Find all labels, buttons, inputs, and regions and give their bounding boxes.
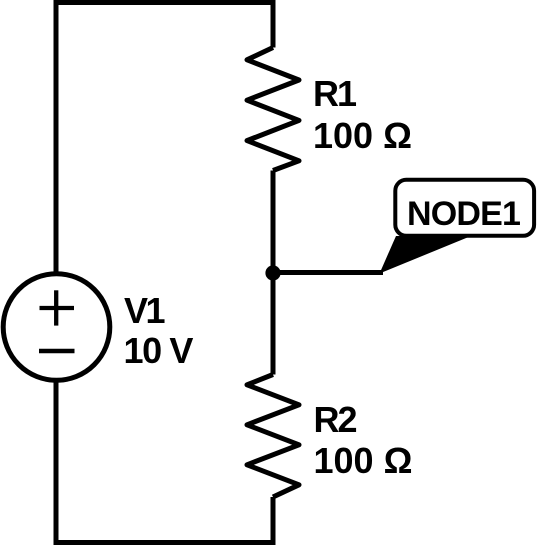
plus sign (V1): [40, 290, 75, 325]
callout tail: [380, 236, 472, 274]
wire top: [54, 0, 276, 5]
svg-text:NODE1: NODE1: [407, 195, 520, 233]
wire node to callout: [273, 270, 383, 275]
svg-text:V1: V1: [124, 290, 166, 331]
resistor R2: [247, 375, 299, 498]
svg-text:100 Ω: 100 Ω: [314, 440, 413, 481]
svg-text:R1: R1: [313, 73, 357, 114]
voltage source V1: [3, 274, 110, 381]
wire right upper (top to R1): [271, 0, 276, 48]
svg-text:R2: R2: [314, 399, 357, 440]
resistor R1: [247, 48, 299, 171]
wire left: [54, 0, 59, 545]
minus sign (V1): [39, 349, 75, 354]
wire right lower (R2 to bottom): [271, 497, 276, 545]
node junction dot: [265, 265, 280, 280]
svg-text:10 V: 10 V: [124, 330, 194, 371]
callout balloon NODE1 box: [395, 180, 534, 236]
svg-text:100 Ω: 100 Ω: [313, 115, 412, 156]
wire right middle (R1 to R2): [271, 171, 276, 375]
wire bottom: [54, 540, 276, 545]
